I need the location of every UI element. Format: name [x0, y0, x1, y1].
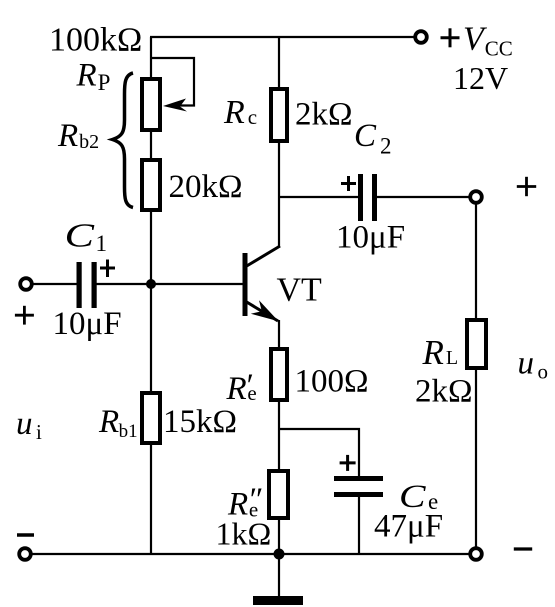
wire collector vertical (top rail through Rc down to transistor collector) — [278, 37, 280, 247]
emitter arrow — [251, 300, 279, 321]
svg-text:47μF: 47μF — [374, 509, 443, 545]
node base (junction dot) — [146, 279, 156, 289]
transistor VT — [245, 246, 280, 321]
wire input terminal to C1 — [33, 283, 77, 285]
resistor Rb1 — [142, 393, 160, 443]
wire bottom rail — [31, 553, 470, 555]
label minus output — [514, 547, 532, 550]
wire base (base node to transistor base bar) — [151, 283, 243, 285]
terminal input (left top) — [20, 278, 32, 290]
svg-text:2kΩ: 2kΩ — [295, 97, 353, 133]
label plus input — [15, 306, 34, 325]
wire potentiometer wiper loop — [151, 58, 194, 106]
svg-text:15kΩ: 15kΩ — [163, 404, 237, 440]
wire emitter branch to Ce (L shape) — [279, 429, 359, 478]
wire right vertical (output top terminal through RL to bottom terminal) — [475, 202, 477, 548]
svg-text:VT: VT — [277, 272, 323, 309]
wire top rail from left branch to VCC terminal — [150, 36, 414, 38]
collector lead — [245, 246, 280, 267]
resistor Rc — [271, 89, 287, 141]
terminal input (left bottom) — [19, 548, 31, 560]
label plus C1 — [100, 260, 115, 278]
resistor Re' — [271, 349, 287, 400]
resistor RP (100k potentiometer body) — [142, 79, 160, 130]
svg-text:R′e: R′e — [226, 368, 257, 407]
node emitter-ground (junction dot) — [274, 549, 285, 560]
capacitor C2 — [358, 174, 377, 221]
label plus output — [517, 177, 536, 196]
resistor 20k (lower part of Rb2) — [142, 160, 160, 210]
capacitor Ce (horizontal plates) — [334, 476, 383, 497]
wire ground stub — [278, 554, 280, 597]
emitter lead — [245, 301, 278, 321]
terminal VCC — [415, 31, 427, 43]
label plus Ce — [340, 455, 356, 471]
resistor Re'' — [269, 471, 288, 518]
svg-text:10μF: 10μF — [53, 306, 122, 342]
svg-text:100Ω: 100Ω — [295, 364, 369, 400]
label minus input — [17, 533, 34, 536]
base bar — [243, 253, 248, 316]
svg-text:10μF: 10μF — [336, 220, 405, 256]
wire emitter vertical (through Re' and Re'' down to ground node) — [278, 320, 280, 554]
svg-text:1kΩ: 1kΩ — [216, 516, 272, 552]
wire C2 to output terminal — [377, 196, 470, 198]
wire C1 to base node — [96, 283, 151, 285]
terminal output top — [470, 191, 482, 203]
svg-text:12V: 12V — [453, 60, 508, 96]
terminal output bottom — [470, 548, 482, 560]
wire collector node to C2 — [279, 196, 358, 198]
svg-text:100kΩ: 100kΩ — [49, 22, 142, 59]
capacitor C1 — [77, 262, 97, 308]
ground — [253, 596, 303, 605]
svg-text:2kΩ: 2kΩ — [415, 374, 473, 410]
label plus VCC — [441, 28, 460, 47]
potentiometer wiper arrow — [163, 99, 187, 112]
svg-text:20kΩ: 20kΩ — [169, 169, 243, 205]
brace Rb2 — [113, 73, 134, 208]
label plus C2 — [341, 176, 356, 191]
resistor RL — [467, 320, 486, 368]
wire left vertical (VCC rail down through RP, 20k, base node, Rb1 to bottom rail) — [150, 37, 152, 554]
wire Ce bottom to bottom rail — [358, 495, 360, 554]
